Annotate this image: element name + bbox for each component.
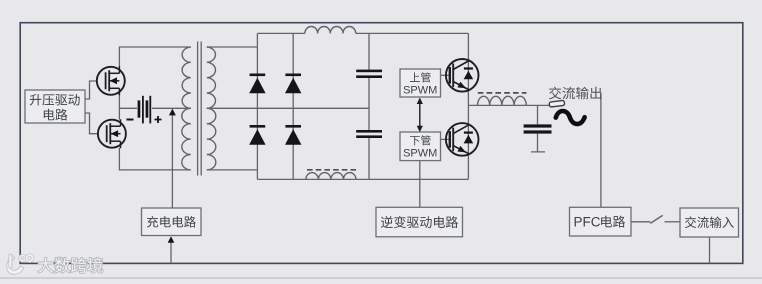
wire inverter leg vertical bbox=[467, 33, 469, 179]
capacitor C2 bbox=[356, 130, 382, 138]
charger circuit box 充电电路 bbox=[142, 208, 202, 236]
svg-text:SPWM: SPWM bbox=[403, 148, 437, 160]
arrowhead bottom bus into charger box bbox=[168, 236, 175, 243]
capacitor C3 output filter bbox=[524, 124, 552, 133]
SPWM upper gate driver box 上管SPWM bbox=[400, 69, 441, 97]
wire gate of Q2 from boost driver box bbox=[85, 113, 98, 134]
diode D4 bbox=[285, 125, 301, 145]
battery plus label bbox=[155, 116, 162, 123]
wire rectifier right column bbox=[292, 33, 294, 179]
wire charging circuit to battery node (vertical) bbox=[171, 114, 173, 209]
inverter driver box 逆变驱动电路 bbox=[376, 207, 463, 237]
wire secondary center tap to DC mid rail bbox=[207, 107, 369, 109]
PFC circuit box PFC电路 bbox=[570, 207, 632, 236]
inductor L2 DC bus bottom with core dashes bbox=[306, 173, 356, 180]
wire Q2 source to transformer primary bottom bbox=[119, 148, 190, 170]
capacitor C1 bbox=[356, 70, 382, 78]
wire secondary bottom to rectifier bbox=[207, 169, 258, 171]
wire double-headed arrow between SPWM boxes bbox=[417, 98, 423, 133]
transformer T1 secondary winding bbox=[207, 47, 216, 108]
wire Q1 source to Q2 drain bbox=[118, 95, 120, 120]
wire DC mid column (between capacitors) bbox=[368, 33, 370, 179]
connector output terminal bbox=[549, 100, 565, 107]
wire battery right lead to primary center tap bbox=[152, 107, 191, 109]
wire inverter output to filter bbox=[468, 104, 549, 106]
wire DC+ top rail bbox=[257, 32, 468, 34]
wire DC- bottom rail bbox=[257, 178, 468, 180]
watermark logo bbox=[7, 254, 34, 274]
wire secondary top to rectifier bbox=[207, 46, 258, 48]
inductor L3 output filter with core dashes bbox=[478, 96, 527, 105]
wire AC output down to PFC circuit bbox=[600, 93, 602, 208]
wire AC input box to bottom bus bbox=[709, 237, 711, 263]
battery minus label bbox=[127, 119, 134, 121]
arrowhead charging line into battery node bbox=[169, 109, 176, 116]
wire battery left lead bbox=[119, 107, 137, 109]
label AC output 交流输出 bbox=[549, 87, 601, 100]
transformer T1 primary winding bbox=[182, 47, 191, 108]
svg-text:PFC: PFC bbox=[574, 215, 601, 230]
inductor L1 DC bus top bbox=[305, 26, 356, 33]
wire Q1 drain to transformer primary top bbox=[119, 47, 190, 67]
wire SPWM lower box to inverter driver box bbox=[419, 161, 421, 208]
wire charger box up arrow from bottom bus bbox=[170, 241, 172, 263]
AC sine symbol bbox=[556, 111, 585, 124]
wire rectifier left column bbox=[256, 33, 258, 179]
transformer T1 core bbox=[198, 42, 202, 176]
SPWM lower gate driver box 下管SPWM bbox=[400, 132, 441, 161]
transistor U1 upper IGBT with freewheel diode bbox=[446, 59, 479, 92]
svg-text:SPWM: SPWM bbox=[403, 85, 437, 97]
AC input box 交流输入 bbox=[680, 208, 739, 237]
wire gate of Q1 from boost driver box bbox=[85, 81, 97, 99]
transistor U2 lower IGBT with freewheel diode bbox=[446, 123, 479, 156]
wire gate of upper IGBT bbox=[441, 74, 450, 76]
wire switch to AC input box bbox=[665, 221, 681, 223]
watermark text 大数跨境 bbox=[38, 258, 103, 273]
wire output capacitor lead and stub bbox=[531, 105, 545, 151]
diode D2 bbox=[249, 125, 265, 145]
diode D3 bbox=[285, 74, 301, 94]
transistor Q1 upper MOSFET bbox=[97, 66, 125, 95]
wire PFC box to switch bbox=[631, 221, 650, 223]
wire gate of lower IGBT bbox=[441, 138, 450, 140]
transistor Q2 lower MOSFET bbox=[98, 119, 126, 148]
battery BT1 bbox=[138, 96, 152, 124]
diode D1 bbox=[249, 74, 265, 94]
switch S1 blade bbox=[650, 215, 662, 223]
boost driver circuit box 升压驱动电路 bbox=[25, 90, 85, 123]
